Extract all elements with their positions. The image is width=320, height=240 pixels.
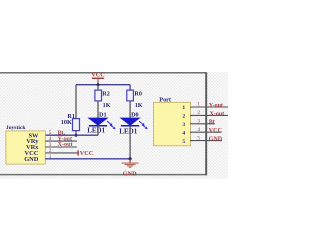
- wire net GND: [45, 158, 130, 160]
- svg-text:10K: 10K: [61, 119, 72, 126]
- ground: [122, 159, 139, 168]
- svg-text:VCC: VCC: [80, 150, 93, 157]
- svg-text:GND: GND: [209, 137, 223, 143]
- svg-text:1K: 1K: [135, 102, 143, 109]
- pin 3 (Bt) stub: [190, 123, 215, 125]
- svg-text:VCC: VCC: [91, 72, 104, 79]
- svg-text:1: 1: [182, 105, 185, 111]
- wire D1 to net Bt: [97, 126, 99, 135]
- svg-text:X-out: X-out: [58, 141, 74, 148]
- connector Port: [153, 96, 228, 145]
- pin 4 (VCC) stub: [190, 131, 222, 133]
- wire D0 to net GND: [129, 126, 131, 159]
- svg-text:D1: D1: [99, 112, 107, 119]
- svg-text:2: 2: [197, 110, 200, 116]
- wire net Bt (joystick SW row): [45, 134, 98, 136]
- pin 3 (VRx) stub: [45, 146, 77, 148]
- svg-text:GND: GND: [24, 156, 39, 163]
- svg-text:LED1: LED1: [87, 126, 105, 134]
- wire VCC rail to R0: [129, 85, 131, 90]
- svg-text:Joystick: Joystick: [6, 125, 26, 131]
- resistor R0 1K: [127, 90, 143, 109]
- svg-text:3: 3: [182, 122, 185, 128]
- pin 2 (VCC) stub: [45, 152, 78, 154]
- svg-text:1K: 1K: [103, 102, 111, 109]
- svg-text:LED1: LED1: [119, 128, 137, 136]
- svg-text:Y-out: Y-out: [209, 103, 223, 109]
- junction Bt / R1: [75, 134, 78, 137]
- junction GND / D0: [129, 157, 132, 160]
- pin 2 (X-out) stub: [190, 114, 228, 116]
- svg-text:4: 4: [182, 130, 185, 136]
- svg-text:1: 1: [197, 102, 200, 108]
- svg-text:Bt: Bt: [209, 120, 215, 126]
- wire VCC rail to R1: [75, 85, 77, 119]
- resistor R2 1K: [95, 90, 111, 109]
- wire R0 to D0: [129, 101, 131, 119]
- svg-text:5: 5: [197, 135, 200, 141]
- svg-text:5: 5: [182, 139, 185, 145]
- power VCC (top): [91, 72, 104, 85]
- wire R2 to D1: [97, 101, 99, 119]
- svg-text:VCC: VCC: [209, 128, 222, 134]
- pin 4 (VRy) stub: [45, 140, 77, 142]
- junction VCC rail / R2: [97, 83, 100, 86]
- svg-text:R2: R2: [102, 91, 110, 98]
- LED D1: [87, 112, 115, 135]
- resistor R1 10K: [61, 113, 80, 131]
- wire R1 to net Bt: [75, 131, 77, 136]
- connector Joystick: [6, 125, 78, 164]
- svg-text:2: 2: [182, 114, 185, 120]
- wire VCC rail: [76, 84, 130, 86]
- svg-text:GND: GND: [123, 170, 137, 177]
- svg-text:R0: R0: [134, 91, 142, 98]
- pin 5 (GND) stub: [190, 140, 222, 142]
- pin 1 (Y-out) stub: [190, 106, 228, 108]
- wire VCC to R2: [97, 85, 99, 91]
- svg-text:X-out: X-out: [210, 111, 225, 117]
- power VCC (joystick pin 2): [78, 150, 93, 157]
- LED D0: [119, 112, 147, 136]
- svg-text:D0: D0: [131, 112, 139, 119]
- svg-text:3: 3: [197, 119, 200, 125]
- svg-text:4: 4: [197, 127, 200, 133]
